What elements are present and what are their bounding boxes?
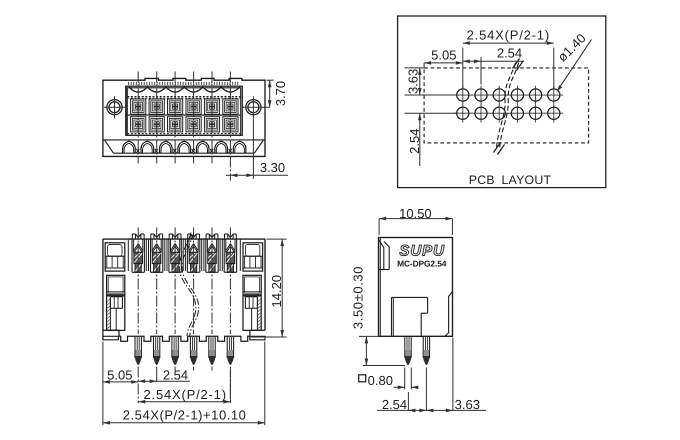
view1 row divider	[127, 114, 240, 116]
view1 column centerlines	[138, 72, 230, 181]
dimension 3.63 (view4)	[426, 338, 480, 413]
svg-text:MC-DPG2.54: MC-DPG2.54	[397, 258, 447, 268]
view2 break lines	[494, 59, 524, 155]
dimension 2.54X(P/2-1) (view3)	[138, 371, 230, 404]
view3 break line (wavy)	[179, 233, 198, 337]
view1 right mounting hole	[242, 96, 270, 118]
view2 PCB dashed outline	[424, 68, 588, 143]
svg-text:2.54: 2.54	[382, 397, 407, 412]
dimension square 0.80 (view4)	[359, 368, 419, 390]
dimension 5.05 (view3)	[103, 342, 138, 426]
view3 body outline	[103, 239, 265, 341]
view3 contact slots (6 columns)	[132, 234, 237, 272]
svg-text:2.54: 2.54	[497, 46, 522, 61]
view2 hole pattern 2x6	[454, 86, 564, 123]
dimension 3.30 (view1 bottom)	[226, 119, 288, 179]
svg-text:3.30: 3.30	[260, 160, 285, 175]
dimension 10.50 (view4 top)	[379, 206, 452, 235]
svg-text:3.63: 3.63	[405, 69, 420, 94]
dimension 3.70 (view1 right)	[267, 80, 289, 107]
view1 terminal cells 2x6 grid	[131, 99, 238, 132]
leader and label Ø1.40 (view2)	[555, 31, 592, 92]
svg-text:SUPU: SUPU	[399, 243, 445, 260]
view2 PCB layout border	[398, 16, 606, 188]
view3 column centerlines	[138, 228, 230, 404]
view4 internal profile	[392, 292, 453, 337]
svg-text:2.54X(P/2-1)+10.10: 2.54X(P/2-1)+10.10	[123, 407, 247, 422]
svg-text:10.50: 10.50	[399, 206, 432, 221]
view1 bottom arch strip	[103, 140, 265, 153]
view1 inner housing	[126, 82, 243, 135]
view3 right mounting blocks	[243, 243, 263, 331]
svg-text:5.05: 5.05	[107, 367, 132, 382]
svg-text:5.05: 5.05	[431, 47, 456, 62]
svg-text:ø1.40: ø1.40	[555, 31, 589, 65]
svg-text:3.70: 3.70	[273, 81, 288, 106]
dimension 2.54 (view2 left, row pitch)	[405, 113, 457, 166]
view3 pins (6)	[135, 336, 234, 365]
view4 latch detail	[379, 240, 390, 270]
view3 partitions between slots	[128, 239, 240, 271]
view1 connector front-view body outline	[103, 78, 265, 156]
dimension 2.54 (view4)	[377, 368, 486, 413]
svg-text:14.20: 14.20	[269, 275, 284, 308]
svg-text:0.80: 0.80	[368, 373, 393, 388]
svg-text:2.54X(P/2-1): 2.54X(P/2-1)	[467, 28, 550, 43]
svg-text:2.54X(P/2-1): 2.54X(P/2-1)	[144, 387, 227, 402]
dimension 2.54 (view3)	[138, 367, 190, 383]
dimension 2.54X(P/2-1)+10.10 (view3)	[103, 342, 265, 426]
dimension 3.63 (view2 left)	[405, 68, 457, 95]
svg-text:3.63: 3.63	[455, 397, 480, 412]
view4 pins (2)	[405, 336, 430, 365]
dimension 3.50±0.30 (view4 left)	[350, 266, 405, 366]
view3 left mounting blocks	[105, 243, 125, 331]
dimension 14.20 (view3 right)	[249, 239, 286, 337]
svg-text:3.50±0.30: 3.50±0.30	[350, 266, 365, 329]
view4 body outline	[379, 238, 453, 337]
svg-text:PCB LAYOUT: PCB LAYOUT	[469, 173, 552, 187]
svg-text:2.54: 2.54	[407, 129, 422, 154]
dimension 5.05 (view2)	[424, 47, 463, 68]
svg-text:2.54: 2.54	[163, 367, 188, 382]
dimension 2.54 (view2)	[463, 46, 524, 85]
dimension 2.54X(P/2-1) (view2 top)	[463, 28, 554, 89]
view1 left mounting hole	[104, 96, 125, 118]
